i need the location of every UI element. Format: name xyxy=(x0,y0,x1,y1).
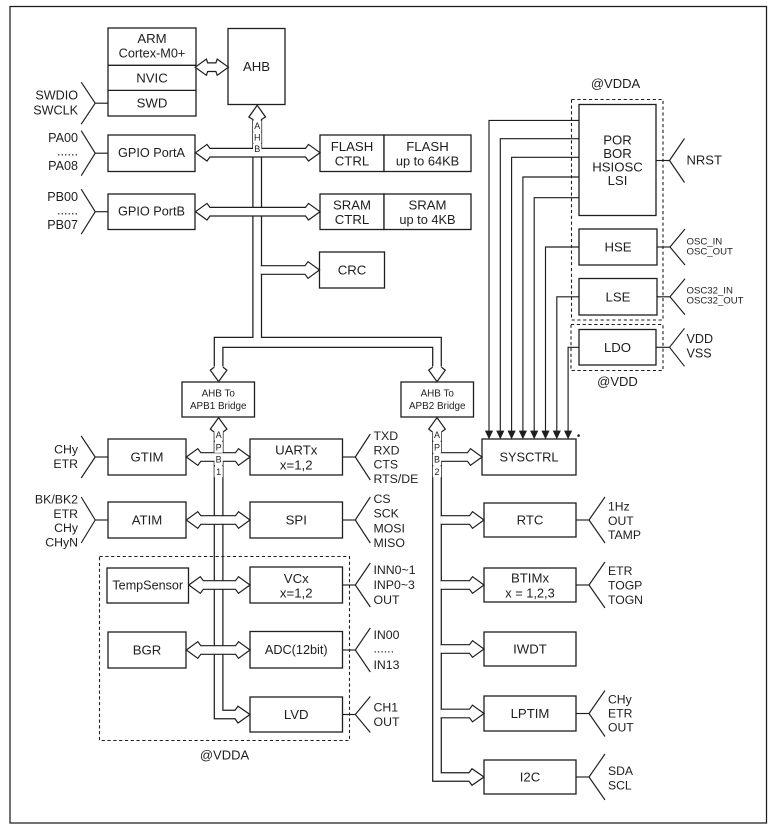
svg-text:CHy: CHy xyxy=(54,521,79,535)
block GPIO PortB xyxy=(108,194,195,230)
block UARTx x=1,2 xyxy=(250,439,343,475)
block TempSensor xyxy=(107,568,189,603)
arrow APB2 bus to IWDT xyxy=(441,641,484,658)
svg-text:PA00: PA00 xyxy=(48,131,78,145)
svg-text:B: B xyxy=(216,455,222,465)
pin fork VCx (INN/INP/OUT) xyxy=(343,563,371,607)
arrow BGR to ADC (bidirectional) xyxy=(186,642,250,659)
pin fork LDO (VDD/VSS) xyxy=(656,328,685,366)
pin label NRST xyxy=(687,153,722,168)
arrowhead down into AHB-APB2 bridge xyxy=(429,367,446,382)
svg-text:HSE: HSE xyxy=(604,240,631,255)
svg-text:P: P xyxy=(434,442,440,452)
block GTIM xyxy=(108,439,186,475)
block BTIMx x=1,2,3 xyxy=(484,568,576,602)
svg-text:GPIO PortA: GPIO PortA xyxy=(118,146,186,160)
arrow APB2 bus to BTIMx xyxy=(441,577,484,594)
wire AHB bus trunk and branch channel with up-arrow into AHB xyxy=(214,105,441,366)
pin labels I2C SDA SCL xyxy=(608,764,634,793)
svg-text:A: A xyxy=(254,121,260,131)
svg-text:ETR: ETR xyxy=(53,507,78,521)
pin fork ATIM (BK/ETR/CHy/CHyN) xyxy=(81,497,108,543)
stray dot artifact xyxy=(577,434,580,437)
svg-text:OUT: OUT xyxy=(608,721,634,735)
block POR BOR HSIOSC LSI xyxy=(579,105,656,216)
svg-text:@VDD: @VDD xyxy=(597,374,638,389)
arrow GPIO PortB to SRAM CTRL (bidirectional) xyxy=(196,203,321,220)
block LPTIM xyxy=(484,696,576,731)
block SRAM up to 4KB xyxy=(384,194,471,230)
svg-text:A: A xyxy=(216,430,222,440)
block LDO xyxy=(579,330,656,366)
pin fork SWD (SWDIO/SWCLK) xyxy=(81,82,108,124)
svg-text:NRST: NRST xyxy=(687,153,722,168)
svg-text:LVD: LVD xyxy=(284,707,309,722)
arrow TempSensor to VCx (bidirectional) xyxy=(189,577,250,594)
pin labels UARTx TXD RXD CTS RTS/DE xyxy=(374,429,419,486)
arrowhead down into AHB-APB1 bridge xyxy=(210,367,227,382)
block ADC 12bit xyxy=(250,632,343,669)
svg-text:AHB: AHB xyxy=(243,59,270,74)
dashed @VDDA analog region (bottom left) xyxy=(100,557,350,741)
svg-text:CHyN: CHyN xyxy=(45,536,78,550)
svg-text:@VDDA: @VDDA xyxy=(591,76,641,91)
pin labels PB00..PB07 xyxy=(47,190,78,232)
svg-text:OUT: OUT xyxy=(374,593,400,607)
pin labels SPI CS SCK MOSI MISO xyxy=(374,492,405,550)
svg-text:A: A xyxy=(434,430,440,440)
arrow APB2 bus to RTC xyxy=(441,512,484,529)
svg-text:FLASH: FLASH xyxy=(331,139,374,154)
pin fork GTIM (CHy/ETR) xyxy=(81,436,108,478)
svg-text:SYSCTRL: SYSCTRL xyxy=(499,450,558,465)
svg-text:LDO: LDO xyxy=(604,340,631,355)
pin labels LPTIM CHy ETR OUT xyxy=(608,693,634,735)
svg-text:1Hz: 1Hz xyxy=(608,500,630,514)
wire HSE line to SYSCTRL xyxy=(542,247,579,439)
block CRC xyxy=(320,252,385,288)
svg-text:IWDT: IWDT xyxy=(513,642,547,657)
svg-text:......: ...... xyxy=(57,145,78,159)
svg-text:CRC: CRC xyxy=(338,263,367,278)
svg-text:UARTx: UARTx xyxy=(275,443,318,458)
svg-text:GPIO PortB: GPIO PortB xyxy=(118,205,185,219)
dashed @VDDA analog region (top right) xyxy=(572,100,664,321)
svg-text:RTC: RTC xyxy=(517,513,544,528)
svg-text:up to 64KB: up to 64KB xyxy=(396,153,459,168)
node APB2 bus letters xyxy=(433,430,441,477)
svg-text:x = 1,2,3: x = 1,2,3 xyxy=(505,585,554,600)
arrow ATIM to SPI (bidirectional) xyxy=(186,512,250,529)
svg-text:ADC(12bit): ADC(12bit) xyxy=(265,643,328,657)
svg-text:ATIM: ATIM xyxy=(132,513,163,528)
svg-text:APB2 Bridge: APB2 Bridge xyxy=(409,401,466,412)
pin fork UARTx (TXD/RXD/CTS/RTS) xyxy=(343,434,371,480)
pin labels VCx INN0~1 INP0~3 OUT xyxy=(374,563,416,607)
svg-text:VCx: VCx xyxy=(284,571,309,586)
svg-text:ETR: ETR xyxy=(608,564,633,578)
arrow GTIM to UARTx (bidirectional) xyxy=(186,449,250,466)
svg-text:Cortex-M0+: Cortex-M0+ xyxy=(119,47,186,61)
svg-text:OSC32_OUT: OSC32_OUT xyxy=(687,296,744,307)
pin labels ADC IN00..IN13 xyxy=(374,628,400,672)
svg-text:CTRL: CTRL xyxy=(335,153,369,168)
svg-text:......: ...... xyxy=(57,204,78,218)
svg-text:MISO: MISO xyxy=(374,536,405,550)
svg-text:AHB To: AHB To xyxy=(421,389,455,400)
svg-text:BK/BK2: BK/BK2 xyxy=(35,492,78,506)
svg-text:SCK: SCK xyxy=(374,507,400,521)
svg-text:RTS/DE: RTS/DE xyxy=(374,472,419,486)
block AHB xyxy=(228,29,285,105)
pin labels LVD CH1 OUT xyxy=(374,701,400,730)
svg-text:TAMP: TAMP xyxy=(608,528,641,542)
label @VDDA (top right region) xyxy=(591,76,641,91)
block AHB to APB2 bridge xyxy=(401,382,474,417)
svg-text:x=1,2: x=1,2 xyxy=(280,457,313,472)
svg-text:OUT: OUT xyxy=(374,715,400,729)
block HSE xyxy=(579,229,657,265)
svg-text:SRAM: SRAM xyxy=(333,198,371,213)
pin fork POR (NRST) xyxy=(656,139,685,183)
label @VDD (LDO region) xyxy=(597,374,638,389)
block FLASH CTRL xyxy=(320,135,384,172)
svg-text:SCL: SCL xyxy=(608,779,632,793)
svg-text:LPTIM: LPTIM xyxy=(511,706,550,721)
block GPIO PortA xyxy=(108,135,195,172)
arrow CPU to AHB (bidirectional) xyxy=(195,59,228,75)
svg-text:IN13: IN13 xyxy=(374,658,400,672)
pin labels SWDIO SWCLK xyxy=(33,89,78,118)
dashed @VDD region (LDO) xyxy=(571,325,663,371)
node AHB bus letters xyxy=(253,121,261,155)
svg-text:H: H xyxy=(254,133,261,143)
svg-text:INN0~1: INN0~1 xyxy=(374,563,416,577)
svg-text:CHy: CHy xyxy=(54,443,79,457)
svg-text:PB07: PB07 xyxy=(47,218,78,232)
block AHB to APB1 bridge xyxy=(182,382,255,417)
svg-text:B: B xyxy=(434,455,440,465)
svg-text:OSC_OUT: OSC_OUT xyxy=(687,247,734,258)
wire POR line 3 to SYSCTRL xyxy=(508,157,579,438)
svg-text:NVIC: NVIC xyxy=(136,70,168,85)
svg-text:VDD: VDD xyxy=(687,332,714,346)
svg-text:ETR: ETR xyxy=(608,707,633,721)
svg-text:TempSensor: TempSensor xyxy=(112,579,183,593)
svg-text:TOGN: TOGN xyxy=(608,593,643,607)
pin labels GTIM CHy ETR xyxy=(53,443,78,472)
pin labels OSC32_IN OSC32_OUT xyxy=(687,286,744,307)
svg-text:BGR: BGR xyxy=(133,643,162,658)
svg-text:@VDDA: @VDDA xyxy=(200,748,250,763)
svg-text:PA08: PA08 xyxy=(48,159,78,173)
svg-text:B: B xyxy=(254,144,260,154)
pin labels BTIMx ETR TOGP TOGN xyxy=(608,564,643,607)
svg-text:TOGP: TOGP xyxy=(608,579,642,593)
svg-text:......: ...... xyxy=(374,642,395,656)
svg-text:AHB To: AHB To xyxy=(202,389,236,400)
svg-text:LSI: LSI xyxy=(608,173,628,188)
svg-text:SDA: SDA xyxy=(608,764,634,778)
wire LSE line to SYSCTRL xyxy=(553,297,579,439)
wire POR line 2 to SYSCTRL xyxy=(497,139,579,439)
wire POR line 1 to SYSCTRL xyxy=(485,120,579,438)
arrow GPIO PortA to FLASH CTRL (bidirectional) xyxy=(196,144,321,161)
svg-text:LSE: LSE xyxy=(606,289,631,304)
block BGR xyxy=(108,632,186,668)
pin fork SPI (CS/SCK/MOSI/MISO) xyxy=(343,497,371,543)
svg-text:BTIMx: BTIMx xyxy=(511,571,550,586)
svg-text:x=1,2: x=1,2 xyxy=(280,585,313,600)
label @VDDA (bottom left region) xyxy=(200,748,250,763)
svg-text:CS: CS xyxy=(374,492,391,506)
wire POR line 5 to SYSCTRL xyxy=(531,198,579,439)
svg-text:SRAM: SRAM xyxy=(408,198,446,213)
svg-text:2: 2 xyxy=(434,467,439,477)
block LVD xyxy=(250,697,343,732)
wire APB2 bus with arrow into I2C xyxy=(433,433,484,786)
svg-text:I2C: I2C xyxy=(520,770,541,785)
pin fork BTIMx (ETR/TOGP/TOGN) xyxy=(576,562,605,608)
svg-text:CHy: CHy xyxy=(608,693,633,707)
pin fork LVD (CH1/OUT) xyxy=(343,697,371,733)
block CPU ARM Cortex-M0+ / NVIC / SWD xyxy=(108,28,196,116)
pin fork LPTIM (CHy/ETR/OUT) xyxy=(576,691,605,737)
pin fork I2C (SDA/SCL) xyxy=(576,754,605,800)
svg-text:RXD: RXD xyxy=(374,443,400,457)
pin labels RTC 1Hz OUT TAMP xyxy=(608,500,641,543)
block VCx x=1,2 xyxy=(250,567,343,603)
block I2C xyxy=(484,760,576,794)
pin fork GPIO PortA (PA00..PA08) xyxy=(81,131,108,176)
wire POR line 4 to SYSCTRL xyxy=(519,177,579,439)
svg-text:IN00: IN00 xyxy=(374,628,400,642)
svg-text:P: P xyxy=(216,442,222,452)
svg-text:INP0~3: INP0~3 xyxy=(374,578,416,592)
svg-text:OUT: OUT xyxy=(608,514,634,528)
svg-text:FLASH: FLASH xyxy=(406,139,449,154)
block LSE xyxy=(579,279,657,316)
pin fork HSE (OSC_IN/OSC_OUT) xyxy=(657,229,685,265)
block ATIM xyxy=(108,502,186,538)
block SRAM CTRL xyxy=(320,194,384,230)
arrow APB2 bus to LPTIM xyxy=(441,705,484,722)
pin fork GPIO PortB (PB00..PB07) xyxy=(81,189,108,234)
svg-text:GTIM: GTIM xyxy=(131,450,164,465)
svg-text:TXD: TXD xyxy=(374,429,399,443)
svg-text:MOSI: MOSI xyxy=(374,521,405,535)
pin labels VDD VSS xyxy=(687,332,714,361)
svg-text:CH1: CH1 xyxy=(374,701,399,715)
svg-text:VSS: VSS xyxy=(687,347,712,361)
pin fork ADC (IN00..IN13) xyxy=(343,628,371,672)
svg-text:ARM: ARM xyxy=(137,31,166,46)
block SPI xyxy=(250,502,343,538)
arrow AHB bus to CRC xyxy=(261,262,320,279)
wire APB1 bus with arrow into LVD xyxy=(214,433,250,724)
svg-text:1: 1 xyxy=(216,467,221,477)
svg-text:SWCLK: SWCLK xyxy=(33,104,78,118)
svg-text:CTRL: CTRL xyxy=(335,212,369,227)
arrowhead up into APB2 bridge bottom xyxy=(429,418,446,433)
block RTC xyxy=(484,503,576,537)
pin fork RTC (1Hz/OUT/TAMP) xyxy=(576,497,605,543)
svg-text:PB00: PB00 xyxy=(47,190,78,204)
block FLASH up to 64KB xyxy=(384,135,471,172)
pin labels ATIM BK/BK2 ETR CHy CHyN xyxy=(35,492,79,549)
wire LDO line to SYSCTRL xyxy=(565,347,580,438)
svg-text:SPI: SPI xyxy=(286,513,307,528)
svg-text:ETR: ETR xyxy=(53,457,78,471)
svg-text:SWDIO: SWDIO xyxy=(35,89,78,103)
svg-text:up to 4KB: up to 4KB xyxy=(399,212,455,227)
arrow APB2 bus to SYSCTRL xyxy=(441,449,482,466)
svg-text:APB1 Bridge: APB1 Bridge xyxy=(190,401,247,412)
block SYSCTRL xyxy=(482,439,576,475)
block IWDT xyxy=(484,632,576,666)
svg-text:SWD: SWD xyxy=(137,96,168,111)
arrowhead up into APB1 bridge bottom xyxy=(210,418,227,433)
node APB1 bus letters xyxy=(214,430,222,477)
pin labels OSC_IN OSC_OUT xyxy=(687,237,734,258)
svg-text:CTS: CTS xyxy=(374,458,399,472)
pin fork LSE (OSC32_IN/OSC32_OUT) xyxy=(657,279,685,315)
pin labels PA00..PA08 xyxy=(48,131,78,173)
